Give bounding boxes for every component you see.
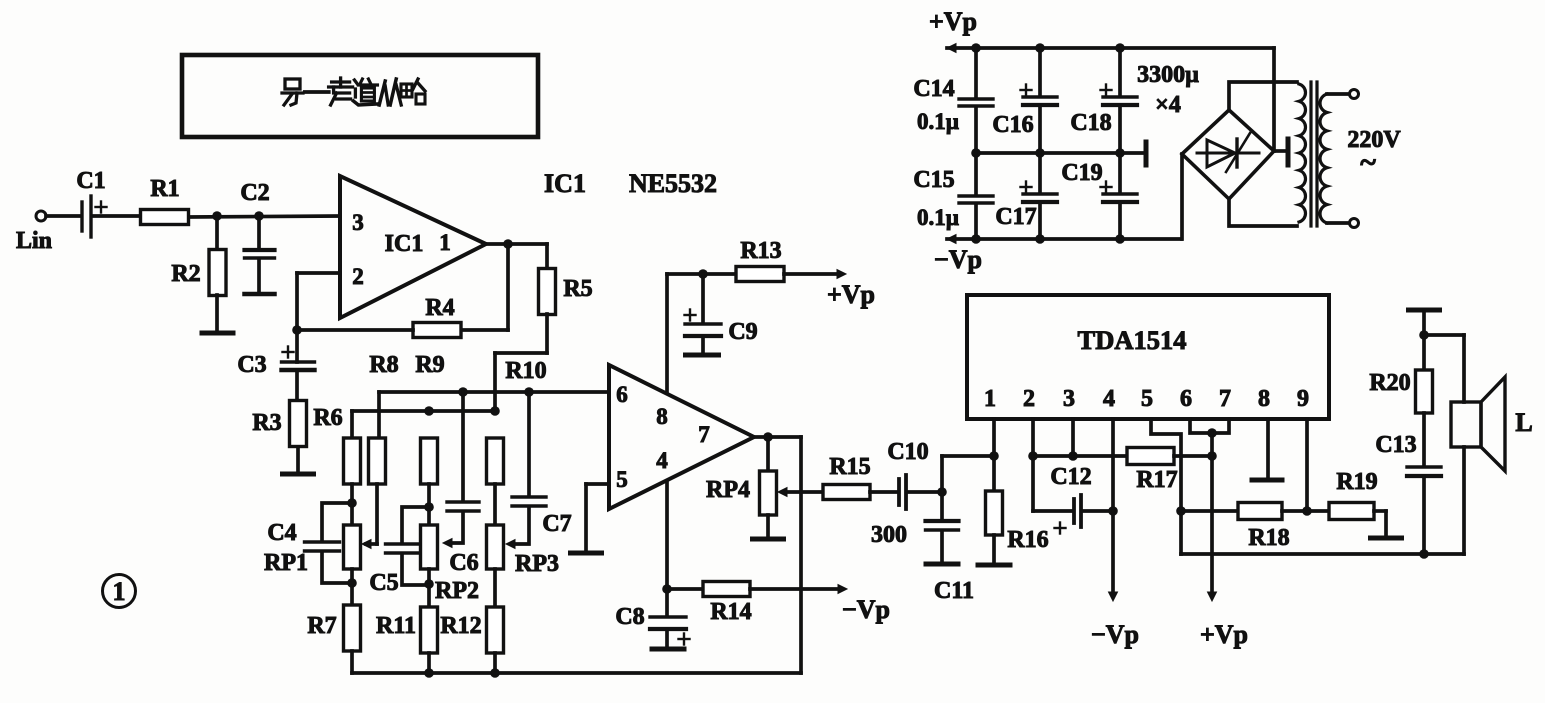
svg-text:R14: R14	[710, 599, 751, 625]
svg-text:C9: C9	[728, 319, 757, 345]
svg-text:C18: C18	[1070, 110, 1111, 136]
svg-text:R12: R12	[440, 613, 481, 639]
svg-text:R4: R4	[425, 295, 454, 321]
svg-text:R19: R19	[1336, 469, 1377, 495]
svg-text:RP2: RP2	[435, 578, 479, 604]
svg-text:C5: C5	[369, 570, 398, 596]
svg-text:RP4: RP4	[706, 477, 750, 503]
svg-text:4: 4	[1103, 386, 1115, 412]
svg-text:R15: R15	[829, 454, 870, 480]
svg-text:×4: ×4	[1155, 92, 1181, 118]
svg-text:R3: R3	[252, 410, 281, 436]
svg-text:7: 7	[1219, 386, 1231, 412]
svg-text:C3: C3	[237, 352, 266, 378]
svg-text:RP3: RP3	[515, 551, 559, 577]
svg-text:5: 5	[616, 467, 628, 492]
svg-text:7: 7	[698, 422, 710, 447]
svg-text:R20: R20	[1369, 370, 1410, 396]
svg-text:1: 1	[113, 577, 126, 606]
svg-text:+Vp: +Vp	[1200, 620, 1248, 649]
svg-text:1: 1	[984, 386, 996, 412]
svg-text:C15: C15	[913, 167, 954, 193]
svg-text:3: 3	[352, 210, 364, 235]
svg-text:C16: C16	[992, 112, 1033, 138]
svg-text:C2: C2	[240, 180, 269, 206]
svg-text:R6: R6	[313, 405, 342, 431]
svg-text:TDA1514: TDA1514	[1078, 325, 1187, 355]
svg-text:~: ~	[1360, 146, 1376, 179]
svg-text:R7: R7	[307, 613, 336, 639]
svg-text:0.1µ: 0.1µ	[917, 205, 959, 230]
svg-text:R8: R8	[369, 352, 398, 378]
svg-text:300: 300	[871, 522, 907, 548]
svg-text:C7: C7	[542, 511, 571, 537]
svg-text:−Vp: −Vp	[1091, 620, 1139, 649]
svg-text:IC1: IC1	[385, 231, 424, 257]
svg-text:R2: R2	[171, 261, 200, 287]
svg-text:R18: R18	[1248, 525, 1289, 551]
svg-text:9: 9	[1297, 386, 1309, 412]
svg-text:3300µ: 3300µ	[1137, 62, 1199, 88]
svg-text:1: 1	[439, 230, 451, 255]
svg-text:C13: C13	[1375, 432, 1416, 458]
svg-text:+Vp: +Vp	[929, 7, 977, 36]
svg-text:C11: C11	[934, 578, 974, 604]
svg-text:C1: C1	[76, 168, 105, 194]
svg-text:R10: R10	[505, 358, 546, 384]
svg-text:6: 6	[1180, 386, 1192, 412]
svg-text:NE5532: NE5532	[629, 169, 717, 198]
svg-text:6: 6	[616, 382, 628, 407]
svg-text:−Vp: −Vp	[842, 595, 890, 624]
svg-text:R9: R9	[415, 352, 444, 378]
svg-text:C19: C19	[1061, 160, 1102, 186]
svg-text:8: 8	[1258, 386, 1270, 412]
svg-text:2: 2	[1023, 386, 1035, 412]
svg-text:R13: R13	[740, 238, 781, 264]
svg-text:0.1µ: 0.1µ	[917, 109, 959, 134]
svg-text:R16: R16	[1007, 527, 1048, 553]
svg-text:R1: R1	[150, 176, 179, 202]
svg-text:R5: R5	[563, 276, 592, 302]
svg-text:5: 5	[1141, 386, 1153, 412]
svg-text:IC1: IC1	[544, 169, 586, 198]
svg-text:8: 8	[656, 404, 668, 429]
svg-text:C12: C12	[1050, 464, 1091, 490]
svg-text:4: 4	[656, 448, 668, 473]
svg-text:C8: C8	[615, 604, 644, 630]
svg-text:C10: C10	[887, 439, 928, 465]
svg-text:2: 2	[352, 264, 364, 289]
svg-text:R11: R11	[376, 613, 416, 639]
svg-text:C4: C4	[267, 520, 296, 546]
svg-text:R17: R17	[1136, 467, 1177, 493]
svg-text:3: 3	[1063, 386, 1075, 412]
svg-text:C14: C14	[913, 76, 954, 102]
svg-text:RP1: RP1	[264, 550, 308, 576]
svg-text:−Vp: −Vp	[934, 245, 982, 274]
svg-text:C6: C6	[449, 550, 478, 576]
svg-text:L: L	[1515, 408, 1532, 437]
svg-text:C17: C17	[995, 204, 1036, 230]
svg-text:Lin: Lin	[16, 228, 52, 254]
svg-text:+Vp: +Vp	[827, 280, 875, 309]
